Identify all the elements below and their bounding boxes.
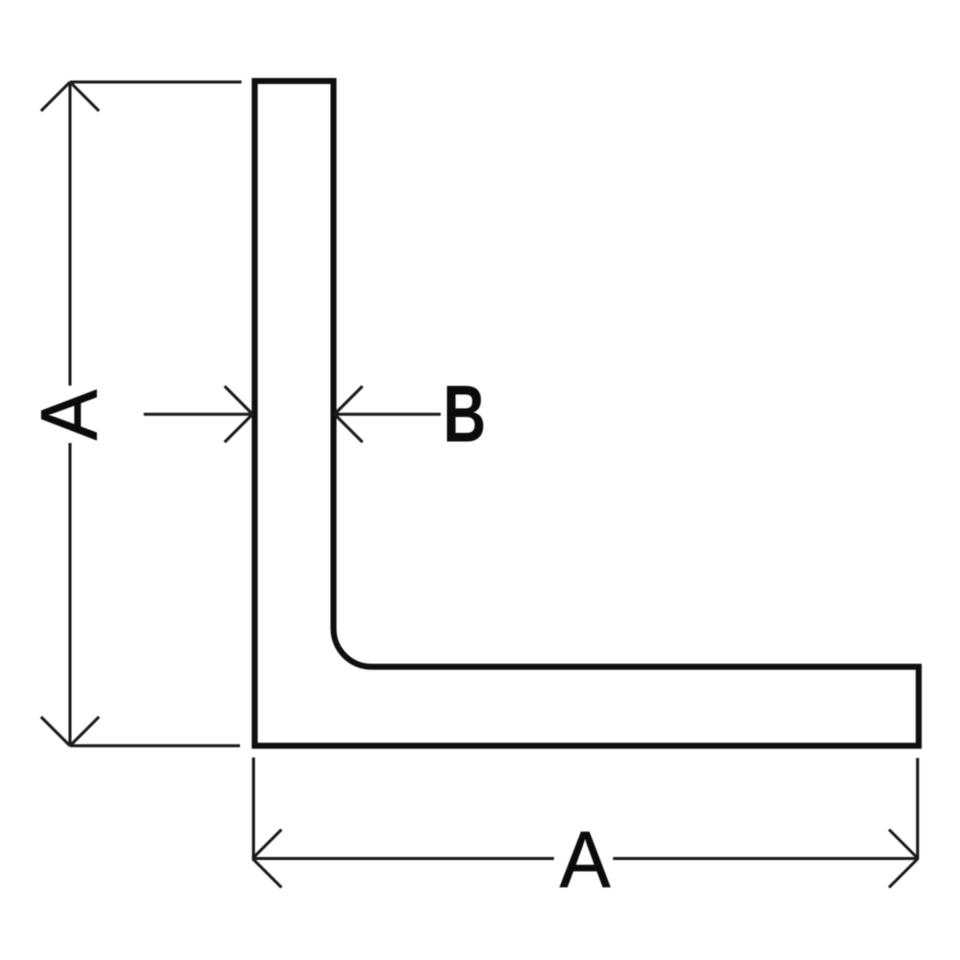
svg-text:A: A [24,390,114,441]
svg-text:A: A [560,814,611,904]
svg-text:B: B [443,370,486,460]
